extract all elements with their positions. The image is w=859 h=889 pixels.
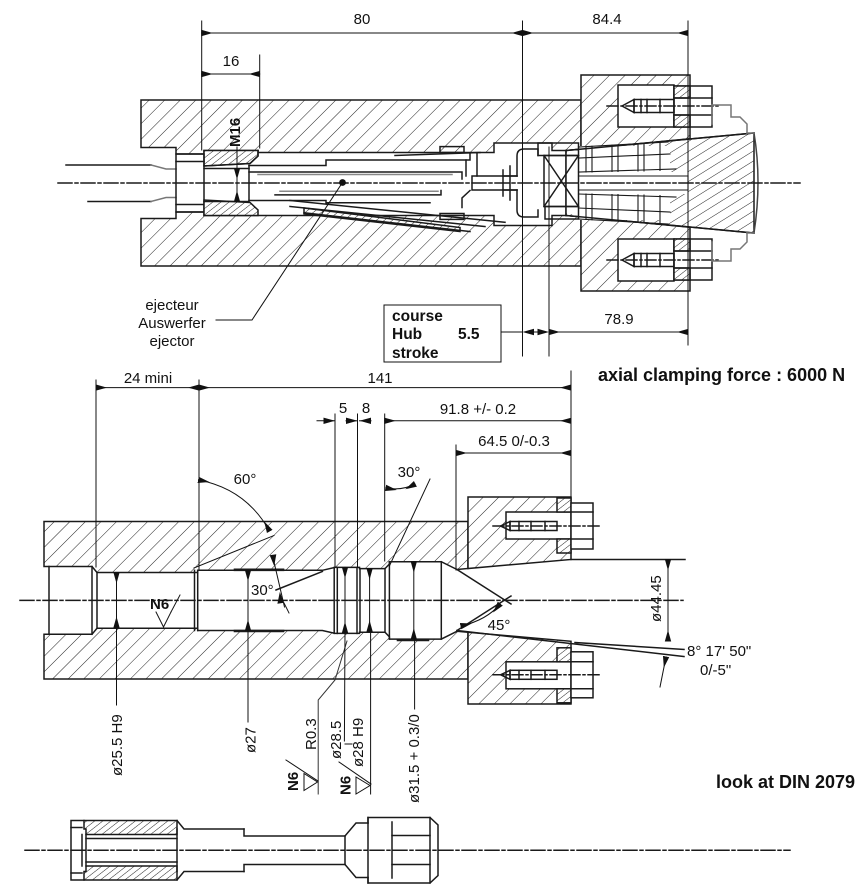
gripper cross block with X: [544, 156, 579, 207]
bolt lower (middle): [501, 670, 511, 679]
svg-text:ejector: ejector: [149, 333, 194, 350]
extension line x=522.5 long: [522, 21, 524, 356]
svg-text:R0.3: R0.3: [303, 718, 320, 750]
taper top line and extension: [571, 559, 685, 561]
45 deg center cone lines: [457, 570, 511, 605]
ext lines 5/8 dims: [334, 414, 336, 567]
svg-text:0/-5": 0/-5": [700, 662, 731, 679]
housing lower band: [141, 212, 581, 266]
drawbar sleeve hatched bottom: [84, 866, 177, 880]
dimension 91.8 +/- 0.2: [385, 420, 571, 422]
collet sleeve cone upper lines: [395, 153, 480, 156]
svg-text:24 mini: 24 mini: [124, 370, 172, 387]
60 deg cone ref line: [194, 536, 274, 569]
svg-text:Hub: Hub: [392, 326, 422, 343]
svg-text:141: 141: [367, 370, 392, 387]
bolt upper (top view): [622, 100, 634, 113]
svg-text:ø31.5 + 0.3/0: ø31.5 + 0.3/0: [406, 714, 423, 803]
taper tolerance line: [575, 643, 684, 650]
main centerline top view: [58, 182, 800, 184]
drawbar ball head: [517, 149, 538, 217]
flange block upper (top view): [581, 75, 690, 149]
dim column diameter 28 H9: [369, 569, 371, 632]
bore step cross lines: [48, 567, 50, 635]
N6 symbol 1 rotated: [286, 760, 318, 781]
dimension 84.4: [523, 32, 689, 34]
dim column diameter 28.5: [344, 567, 346, 632]
svg-text:stroke: stroke: [392, 345, 439, 362]
collar right face: [204, 151, 258, 167]
lower band hatched: [44, 628, 468, 679]
30 deg upper arc: [386, 484, 415, 489]
taper bottom line extended: [457, 631, 684, 657]
45 deg arc: [461, 604, 500, 626]
bolt head area lower: [674, 239, 712, 280]
drawbar outline: [71, 821, 84, 881]
dimension 16: [202, 73, 260, 75]
bolt channel lower (top view): [618, 239, 674, 281]
dimension 24 mini: [96, 387, 199, 389]
dim column diameter 27: [247, 570, 249, 630]
svg-text:ejecteur: ejecteur: [145, 297, 198, 314]
dim column diameter 25.5 H9: [116, 573, 118, 628]
ext line x=571: [570, 371, 572, 497]
svg-text:84.4: 84.4: [592, 11, 621, 28]
upper band hatched: [44, 522, 468, 573]
threaded collar upper (dense hatch wedge): [204, 151, 258, 167]
dimension 78.9: [549, 331, 688, 333]
svg-text:N6: N6: [285, 772, 302, 791]
end cap plug: [176, 154, 204, 212]
bolt pocket upper (middle): [506, 512, 571, 539]
30 deg in-bore tick and arrows: [273, 556, 285, 608]
svg-text:8: 8: [362, 400, 370, 417]
thread lines: [86, 838, 177, 840]
svg-text:N6: N6: [338, 776, 355, 795]
30 deg upper ref line: [389, 479, 430, 566]
bolt centerline lower: [607, 259, 718, 261]
svg-text:Auswerfer: Auswerfer: [138, 315, 206, 332]
course/Hub/stroke table box: [384, 305, 501, 362]
svg-text:ø27: ø27: [243, 727, 260, 753]
bolt pocket lower (middle): [506, 662, 571, 689]
dimension 64.5 0/-0.3: [456, 452, 571, 454]
svg-text:5: 5: [339, 400, 347, 417]
60 deg arc: [199, 480, 270, 531]
svg-text:64.5 0/-0.3: 64.5 0/-0.3: [478, 433, 550, 450]
housing upper band: [141, 100, 581, 154]
drawbar sleeve hatched top: [84, 821, 177, 835]
flange lower (middle view): [468, 632, 571, 704]
tool holder gray contour right: [712, 105, 747, 133]
ext line x=199: [198, 380, 200, 570]
centerline bottom view: [25, 849, 790, 851]
8 deg angle arrow: [660, 657, 666, 687]
internal 30 deg cone line: [276, 572, 322, 591]
bolt channel upper (top view): [618, 85, 674, 127]
ejector rod left: [66, 164, 151, 166]
centerline middle view: [20, 599, 683, 601]
collet sleeve sliver lower (dense hatch): [304, 208, 460, 232]
N6 symbol 2 rotated: [339, 762, 371, 784]
extension line x=549: [548, 147, 550, 356]
flange block lower (top view): [581, 217, 690, 291]
R0.3 leader bent: [318, 641, 347, 794]
svg-text:30°: 30°: [398, 464, 421, 481]
drawbar head steps: [472, 176, 517, 190]
dimension 5 and 8 arrows: [317, 420, 335, 422]
stroke 5.5 dimension arrows: [501, 331, 523, 333]
spindle nose taper outline: [566, 133, 754, 233]
svg-text:80: 80: [354, 11, 371, 28]
dimension 141: [199, 387, 571, 389]
tool taper hatched cone: [566, 133, 754, 233]
extension line x=259.7: [259, 55, 261, 148]
tube step: [244, 829, 345, 872]
bolt head upper (middle): [571, 503, 593, 549]
drawbar tube lines lower: [249, 201, 430, 203]
head chamfer collar: [345, 823, 368, 878]
bolt head lower (middle): [571, 652, 593, 698]
svg-text:ø28 H9: ø28 H9: [350, 718, 367, 767]
dim column diameter 31.5: [413, 562, 415, 639]
collet sleeve cone lower lines: [290, 201, 505, 223]
extension line x=201.7: [201, 21, 203, 150]
dimension diameter 44.45: [667, 560, 669, 642]
svg-text:ø28.5: ø28.5: [328, 721, 345, 759]
drawbar slot white area inside taper: [566, 151, 578, 216]
collet finger serrations: [579, 142, 669, 147]
svg-text:look at DIN 2079: look at DIN 2079: [716, 772, 855, 792]
svg-text:78.9: 78.9: [604, 311, 633, 328]
svg-text:axial clamping force : 6000 N: axial clamping force : 6000 N: [598, 365, 845, 385]
dimension 80: [202, 32, 523, 34]
svg-text:ø25.5 H9: ø25.5 H9: [109, 714, 126, 776]
svg-text:N6: N6: [150, 596, 169, 613]
M16 thread bore lines: [204, 168, 249, 170]
svg-text:91.8 +/- 0.2: 91.8 +/- 0.2: [440, 401, 516, 418]
bolt upper (middle): [501, 522, 511, 531]
svg-text:M16: M16: [227, 118, 244, 147]
bolt lower (top view): [622, 254, 634, 267]
extension line x=688: [687, 21, 689, 345]
ext line x=96: [95, 380, 97, 567]
svg-text:5.5: 5.5: [458, 326, 480, 343]
bolt centerline upper: [607, 105, 718, 107]
drawbar tube lines upper: [249, 154, 470, 166]
svg-text:60°: 60°: [234, 471, 257, 488]
ejector leader with dot: [339, 179, 346, 186]
threaded collar lower (dense hatch wedge): [204, 200, 258, 216]
svg-text:30°: 30°: [251, 582, 274, 599]
svg-text:ø44.45: ø44.45: [648, 575, 665, 622]
svg-text:16: 16: [223, 53, 240, 70]
svg-text:8° 17' 50": 8° 17' 50": [687, 643, 751, 660]
svg-text:45°: 45°: [488, 617, 511, 634]
bolt head area upper: [674, 86, 712, 127]
caps above and below cross block: [538, 143, 579, 156]
svg-text:course: course: [392, 308, 443, 325]
flange upper (middle view): [468, 497, 571, 569]
drawbar shaft inside collet: [579, 175, 689, 177]
thick ground bore segments: [235, 568, 283, 571]
